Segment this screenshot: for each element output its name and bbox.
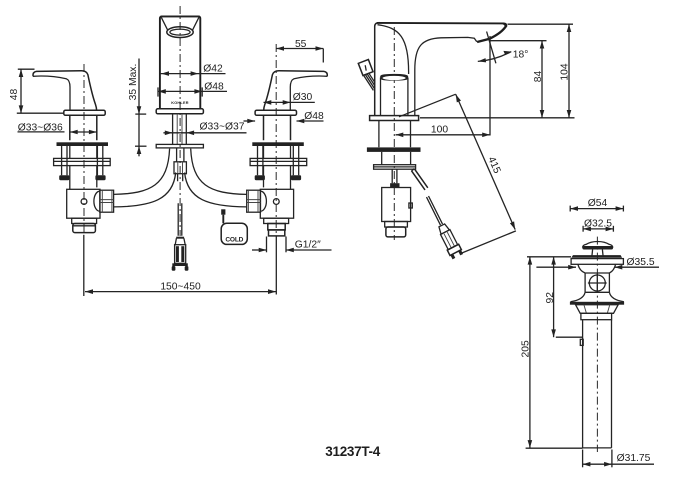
svg-text:Ø35.5: Ø35.5	[627, 257, 655, 268]
dimension Ø54 line	[570, 208, 623, 210]
dimension G1/2 arrow left	[259, 248, 267, 253]
cold tag string	[222, 215, 224, 224]
svg-text:Ø48: Ø48	[204, 82, 224, 93]
dimension Ø54 tick right	[622, 206, 624, 212]
dimension G1/2 extension left	[266, 237, 268, 253]
dimension 205 bottom extension	[526, 447, 583, 449]
tee square nut inner lines	[178, 162, 183, 174]
dimension Ø32.5 arrow left	[583, 227, 591, 232]
drain top extension line	[527, 256, 571, 258]
side cylinder rim inner white	[383, 76, 406, 80]
svg-text:18°: 18°	[513, 49, 529, 60]
dimension 205 arrow up	[528, 257, 533, 265]
spout lower stem	[177, 148, 184, 162]
svg-text:205: 205	[520, 340, 531, 357]
left valve lower plate midline	[54, 160, 111, 162]
dimension G1/2 extension right	[285, 237, 287, 253]
left valve extension line down	[83, 235, 85, 296]
lift rod collar top	[176, 237, 184, 239]
dimension Ø32.5 tick right	[612, 226, 614, 232]
side spout beak	[477, 25, 507, 42]
right valve wide body	[260, 189, 293, 218]
dimension 100 arrow left	[396, 133, 404, 138]
drain flange plate	[571, 259, 623, 265]
dimension 18 arc arrow left	[478, 58, 486, 62]
hose lower left curve	[114, 173, 176, 207]
side valve notch	[409, 203, 412, 208]
tee square nut	[174, 162, 186, 174]
dimension Ø32.5 arrow right	[606, 227, 614, 232]
left handle lever outline	[33, 71, 97, 110]
side cylinder left edge	[380, 78, 382, 116]
left valve lower plate	[54, 158, 111, 165]
svg-text:92: 92	[545, 292, 556, 304]
right handle lever outline	[264, 71, 328, 110]
side body front curve B	[415, 37, 477, 115]
spout aerator outer ellipse	[167, 27, 193, 38]
dimension Ø31.75 arrow left	[583, 462, 591, 467]
left valve body circle	[81, 199, 87, 205]
side popup lever arm	[412, 169, 428, 190]
right valve lower plate	[250, 158, 307, 165]
dimension 92 arrow up	[551, 257, 556, 265]
spout shank	[173, 114, 187, 145]
right valve thread	[269, 230, 285, 236]
dimension 84 arrow up	[540, 41, 545, 49]
dimension Ø32.5 tick left	[582, 226, 584, 232]
dimension 205 arrow down	[528, 440, 533, 448]
right handle flange	[255, 110, 296, 115]
svg-text:Ø31.75: Ø31.75	[617, 453, 651, 464]
svg-text:Ø42: Ø42	[203, 64, 223, 75]
left valve end nut	[73, 224, 96, 233]
right valve stud foot A	[255, 175, 265, 180]
dimension 84 arrow down	[540, 110, 545, 118]
side column below base	[379, 121, 411, 148]
dimension 92 line	[553, 257, 555, 337]
cold tag bead	[221, 209, 225, 214]
spout flange	[156, 109, 203, 114]
dimension Ø48 spout line	[158, 90, 228, 92]
dimension 84 line	[541, 41, 543, 118]
dimension Ø31.75 line	[583, 463, 654, 465]
drain nut	[576, 305, 619, 314]
dimension G1/2 line right	[286, 249, 332, 251]
left valve hose nut dome	[94, 191, 100, 211]
dimension 18 arc arrow right	[503, 51, 511, 55]
dimension Ø42 arrow right	[191, 71, 199, 76]
stopper dome dark band	[582, 246, 613, 250]
dimension 104 line	[568, 24, 570, 118]
left valve step	[72, 218, 97, 223]
right handle lever underside	[290, 76, 327, 110]
drain bell	[571, 292, 624, 302]
lift knob base bar	[172, 263, 188, 266]
left valve stud B	[97, 146, 102, 175]
spout mounting plate	[156, 144, 203, 148]
dimension Ø32.5 line	[583, 228, 613, 230]
hose lower right curve	[185, 173, 247, 207]
stopper neck	[592, 250, 603, 257]
dimension 84 top extension	[490, 40, 547, 42]
lift rod	[178, 203, 182, 235]
side lever knob	[358, 60, 373, 76]
left valve stud A	[62, 146, 67, 175]
dimension Ø33~Ø37 line	[163, 132, 246, 134]
side cylinder dark rim	[380, 74, 408, 81]
dimension Ø48 right arrow right	[297, 119, 305, 124]
svg-text:35 Max.: 35 Max.	[128, 64, 139, 101]
svg-text:Ø33~Ø37: Ø33~Ø37	[200, 122, 245, 133]
right valve end nut	[268, 224, 285, 230]
dimension Ø54 arrow right	[616, 206, 624, 211]
dimension Ø30 arrow right	[283, 100, 291, 105]
dimension Ø30 line	[264, 101, 315, 103]
dimension Ø33~Ø37 arrow right	[186, 131, 194, 136]
stopper dome	[583, 242, 613, 248]
dimension 415 line	[456, 94, 516, 229]
dimension Ø35.5 arrow left	[568, 265, 576, 270]
drain waist	[585, 273, 609, 292]
left valve stud foot A	[59, 175, 69, 180]
side lever knob slot	[365, 65, 366, 70]
dimension Ø42 arrow left	[161, 71, 169, 76]
spout shank inner lines	[177, 114, 182, 145]
dimension 48 arrow up	[19, 69, 24, 77]
dimension Ø33~Ø36 arrow right	[89, 130, 97, 135]
side view centerline	[393, 27, 395, 240]
dimension Ø48 right arrow left	[247, 119, 255, 124]
lift rod collar sides	[175, 238, 185, 244]
right valve hose nut inner lines	[247, 190, 261, 212]
lift knob body	[175, 245, 186, 264]
left handle centerline	[83, 64, 85, 234]
right valve body middle	[264, 146, 291, 189]
dimension 35 Max tick bottom	[135, 145, 147, 147]
left handle flange	[64, 110, 105, 115]
dimension 48 extension bottom	[17, 112, 64, 114]
right valve lower plate midline	[250, 160, 307, 162]
side valve step	[385, 222, 408, 228]
dimension Ø31.75 extension left	[582, 450, 584, 468]
base level extension line	[420, 117, 575, 119]
dimension 415 arrow bottom	[510, 221, 515, 229]
right valve stud B	[293, 146, 298, 175]
dimension Ø48 spout arrow left	[158, 89, 166, 94]
spout tip vertical extension	[489, 36, 491, 136]
dimension 104 top extension	[508, 23, 574, 25]
side stud	[392, 169, 397, 183]
tee stem below nut	[178, 174, 183, 182]
svg-text:48: 48	[9, 89, 20, 101]
side column mid	[382, 152, 411, 165]
dimension 104 arrow up	[567, 24, 572, 32]
dimension Ø54 tick left	[569, 206, 571, 212]
right handle body upper	[264, 115, 291, 140]
side body top edge	[377, 22, 505, 25]
left valve wide body	[67, 189, 100, 218]
right valve stud foot B	[291, 175, 301, 180]
side lower plate midline	[374, 166, 416, 168]
dimension 150~450 arrow right	[268, 289, 276, 294]
svg-text:Ø54: Ø54	[588, 198, 608, 209]
hose upper right curve	[191, 149, 247, 195]
dimension Ø31.75 arrow right	[604, 462, 612, 467]
dimension Ø33~Ø36 arrow line	[70, 131, 97, 133]
left valve hose nut	[100, 190, 114, 212]
left valve body middle	[70, 146, 97, 189]
right valve body circle	[273, 199, 279, 205]
lift knob bar right	[181, 246, 184, 262]
dimension 150~450 line	[85, 291, 276, 293]
dimension Ø48 spout tick left	[157, 87, 159, 96]
dimension 48 line	[20, 69, 22, 113]
side valve end nut	[386, 227, 406, 237]
dimension 205 line	[529, 257, 531, 448]
svg-text:Ø48: Ø48	[304, 111, 324, 122]
dimension 48 extension top	[18, 68, 35, 70]
dimension 92 bottom extension	[556, 336, 583, 338]
dimension Ø33~Ø37 arrow left	[165, 131, 173, 136]
side lever stem hatch	[364, 73, 375, 91]
drain bell dark rim	[570, 302, 624, 305]
dimension 100 line	[396, 134, 491, 136]
spout body outline	[160, 16, 200, 108]
dimension 104 arrow down	[567, 110, 572, 118]
side stud foot	[390, 183, 399, 187]
svg-text:100: 100	[431, 124, 448, 135]
drain tube	[583, 320, 612, 448]
dimension Ø31.75 extension right	[611, 450, 613, 468]
dimension 55 line	[276, 48, 323, 50]
side spout beak tip	[502, 23, 507, 28]
dimension 35 Max arrow down	[137, 106, 142, 114]
right handle centerline	[275, 44, 277, 234]
dimension 415 extension	[460, 231, 516, 254]
right valve stud A	[258, 146, 263, 175]
drain flange top dark	[571, 255, 622, 258]
svg-text:31237T-4: 31237T-4	[325, 444, 380, 459]
dimension Ø35.5 arrow right	[615, 265, 623, 270]
dimension Ø48 right line right	[297, 120, 324, 122]
drain tube nub	[580, 339, 583, 345]
dimension 415 leader	[399, 94, 456, 117]
dimension 35 Max line	[138, 59, 140, 157]
dimension G1/2 arrow right	[286, 248, 294, 253]
dimension Ø48 spout arrow right	[194, 89, 202, 94]
dimension 55 arrow right	[316, 46, 324, 51]
cold tag	[221, 223, 247, 244]
side cylinder right edge	[407, 78, 409, 116]
side dark mounting bar	[367, 147, 421, 152]
right valve dark mounting plate	[252, 142, 303, 146]
svg-text:104: 104	[559, 63, 570, 80]
right valve step	[264, 218, 289, 223]
dimension Ø30 arrow left	[264, 100, 272, 105]
dimension 415 arrow top	[456, 94, 461, 102]
spout mouth slant left	[161, 18, 168, 31]
dimension Ø42 line	[160, 73, 226, 75]
lift knob bar left	[176, 246, 179, 262]
svg-text:G1/2″: G1/2″	[295, 239, 321, 250]
side hose fitting	[436, 222, 463, 259]
dimension G1/2 line left	[252, 249, 267, 251]
spout centerline	[179, 6, 181, 236]
svg-text:55: 55	[295, 39, 307, 50]
left handle lever underside	[33, 76, 70, 110]
dimension Ø33~Ø36 underline	[18, 131, 65, 133]
left handle body upper	[70, 115, 97, 140]
drain centerline	[596, 237, 598, 452]
side body left edge	[375, 23, 380, 116]
dimension 35 Max tick top	[135, 113, 146, 115]
dimension 92 arrow down	[551, 329, 556, 337]
lift knob foot right	[185, 266, 189, 271]
drain step	[581, 313, 612, 319]
dimension 100 arrow right	[482, 133, 490, 138]
left valve end nut line	[73, 225, 96, 227]
spout aerator inner ellipse	[170, 29, 190, 35]
dimension 18 arc	[478, 52, 512, 62]
svg-text:KOHLER: KOHLER	[171, 101, 189, 105]
side base plate	[370, 116, 419, 121]
side popup rod	[427, 196, 443, 225]
stream direction line	[487, 32, 496, 64]
drain overflow cross	[588, 274, 607, 293]
left valve hose nut inner lines	[100, 190, 114, 212]
dimension 150~450 arrow left	[85, 289, 93, 294]
drain nut facets	[584, 305, 610, 314]
drain overflow circle	[589, 275, 605, 291]
spout mouth slant right	[192, 18, 199, 31]
left valve dark mounting plate	[57, 142, 109, 146]
right valve hose nut	[247, 190, 261, 212]
dimension Ø35.5 line right	[615, 266, 660, 268]
dimension 35 Max arrow up	[137, 146, 142, 154]
side body inner curve A	[378, 25, 409, 74]
svg-text:COLD: COLD	[225, 237, 243, 244]
dimension Ø54 arrow left	[570, 206, 578, 211]
svg-text:84: 84	[533, 71, 544, 83]
dimension Ø48 right line left	[244, 120, 256, 122]
side valve body	[382, 188, 411, 222]
right valve hose nut dome	[261, 191, 267, 211]
side lower plate	[374, 165, 416, 170]
dimension Ø48 spout tick right	[201, 87, 203, 96]
lift knob foot left	[172, 266, 176, 271]
dimension Ø35.5 line left	[536, 266, 576, 268]
dimension Ø33~Ø36 arrow left	[70, 130, 78, 135]
dimension 55 extension right	[322, 49, 324, 63]
dimension 48 arrow down	[19, 105, 24, 113]
spout top edge	[161, 15, 200, 17]
left valve stud foot B	[95, 175, 105, 180]
drain vase top sides	[578, 264, 616, 273]
hose upper left curve	[114, 149, 170, 195]
right valve extension line down	[275, 237, 277, 295]
svg-text:Ø30: Ø30	[293, 92, 313, 103]
svg-text:150~450: 150~450	[160, 282, 201, 293]
dimension 55 arrow left	[276, 46, 284, 51]
